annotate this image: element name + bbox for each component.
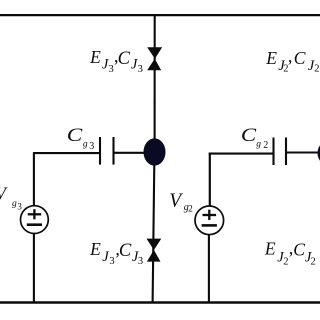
label Vg2 [169, 191, 193, 214]
capacitor Cg2 right plate [285, 138, 287, 166]
svg-text:3: 3 [89, 141, 94, 152]
svg-text:2: 2 [283, 256, 288, 267]
svg-text:C: C [294, 48, 306, 68]
svg-text:3: 3 [109, 64, 114, 75]
island node 2 (clipped at right edge) [318, 141, 320, 165]
svg-text:2: 2 [188, 204, 193, 214]
label EJ3,CJ3 (bottom junction) [89, 239, 143, 267]
wire: Vg2 branch vertical lower [208, 235, 210, 303]
wire: Vg3 branch vertical upper [33, 152, 35, 206]
svg-text:E: E [264, 239, 276, 259]
svg-text:C: C [118, 49, 131, 69]
svg-text:3: 3 [17, 201, 22, 211]
wire: Vg3 branch horizontal [34, 152, 100, 154]
svg-text:g: g [83, 140, 88, 150]
label Cg2 [241, 124, 268, 151]
svg-text:E: E [89, 239, 101, 259]
svg-text:C: C [293, 240, 305, 260]
svg-text:g: g [256, 139, 261, 149]
svg-text:2: 2 [311, 256, 316, 267]
label EJ2,CJ2 (top right) [265, 46, 319, 75]
top bus wire [0, 14, 320, 16]
svg-text:E: E [265, 48, 277, 68]
island node 3 [144, 138, 166, 165]
wire: branch3 upper segment [154, 14, 156, 140]
Josephson junction EJ3/CJ3 (top) [147, 47, 162, 70]
svg-text:2: 2 [263, 140, 268, 151]
bottom bus wire [0, 301, 320, 303]
voltage source Vg3 [21, 206, 49, 234]
svg-text:g: g [12, 199, 17, 209]
svg-text:2: 2 [314, 64, 319, 75]
svg-text:V: V [0, 183, 8, 203]
label Vg3 (clipped at left edge) [0, 183, 22, 211]
svg-text:3: 3 [138, 256, 143, 267]
svg-text:C: C [67, 124, 83, 146]
wire: Vg3 branch vertical lower [33, 234, 35, 304]
wire: Cg3 right plate to island3 [114, 152, 147, 154]
label EJ3,CJ3 (top junction) [89, 46, 143, 75]
wire: branch3 lower segment [153, 163, 155, 303]
svg-text:J: J [102, 249, 109, 265]
svg-text:E: E [89, 47, 101, 67]
svg-text:C: C [119, 241, 132, 261]
voltage source Vg2 [195, 206, 224, 235]
Josephson junction EJ3/CJ3 (bottom) [147, 239, 162, 262]
label Cg3 [67, 124, 95, 152]
wire: Vg2 branch vertical upper [209, 153, 211, 207]
svg-text:,: , [288, 46, 293, 66]
capacitor Cg3 left plate [99, 137, 101, 165]
capacitor Cg3 right plate [112, 137, 114, 165]
wire: Vg2 branch horizontal to Cg2 [209, 153, 274, 155]
label EJ2,CJ2 (bottom right) [264, 238, 316, 267]
capacitor Cg2 left plate [272, 138, 274, 166]
svg-text:3: 3 [138, 64, 143, 75]
svg-text:C: C [241, 124, 257, 146]
wire: Cg2 right plate to island2 [286, 151, 318, 153]
svg-text:V: V [169, 191, 183, 212]
svg-text:3: 3 [109, 256, 114, 267]
